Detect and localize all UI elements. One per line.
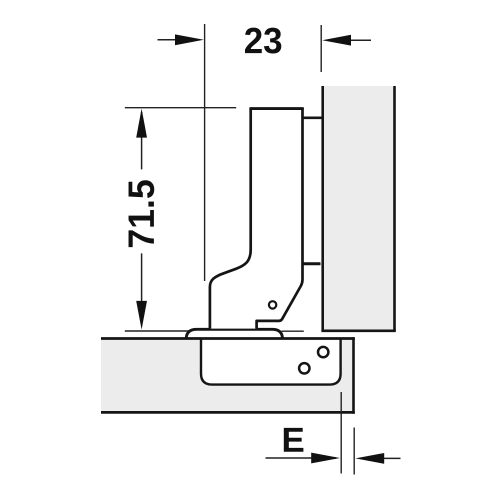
dimension 71.5 lower extension tick [125, 330, 189, 332]
dimension E: label [284, 428, 304, 452]
dimension 23: right arrow [326, 39, 371, 41]
cup cutout in bottom panel [201, 340, 341, 385]
cup screw hole lower [299, 363, 309, 373]
cup screw hole upper [318, 347, 328, 357]
mounting plate step [303, 262, 321, 265]
door panel (vertical, right) [321, 86, 395, 331]
dimension 71.5: dim line upper segment [141, 112, 143, 169]
dimension 23: label [245, 28, 281, 54]
hinge arm outline [210, 109, 303, 329]
dimension 23: left arrow [158, 39, 201, 41]
dimension 23: right extension line [320, 25, 322, 72]
dimension 71.5: ticks [125, 107, 236, 109]
dimension 71.5: label (rotated) [129, 180, 155, 247]
flange baseline segment right of cup [282, 330, 304, 332]
dimension 71.5: dim line lower segment [141, 253, 143, 325]
arm top edge (re-stroke for crisp corner) [249, 107, 303, 110]
bottom panel (horizontal) [101, 337, 355, 414]
dimension E: left arrow (points right) [266, 457, 337, 459]
bottom panel top surface line [101, 337, 355, 340]
dimension 71.5: up arrow [136, 109, 147, 138]
dimension 71.5: down arrow [136, 301, 147, 330]
dimension E: left extension line (cup edge) [340, 392, 342, 474]
link arm to door (top) [303, 117, 322, 120]
dimension 23: left extension line [204, 24, 206, 281]
hinge cup flange [186, 329, 282, 338]
arm screw hole [269, 301, 276, 308]
dimension E: right arrow (points left) [360, 457, 401, 459]
dimension E: right extension line (panel edge) [353, 428, 355, 475]
